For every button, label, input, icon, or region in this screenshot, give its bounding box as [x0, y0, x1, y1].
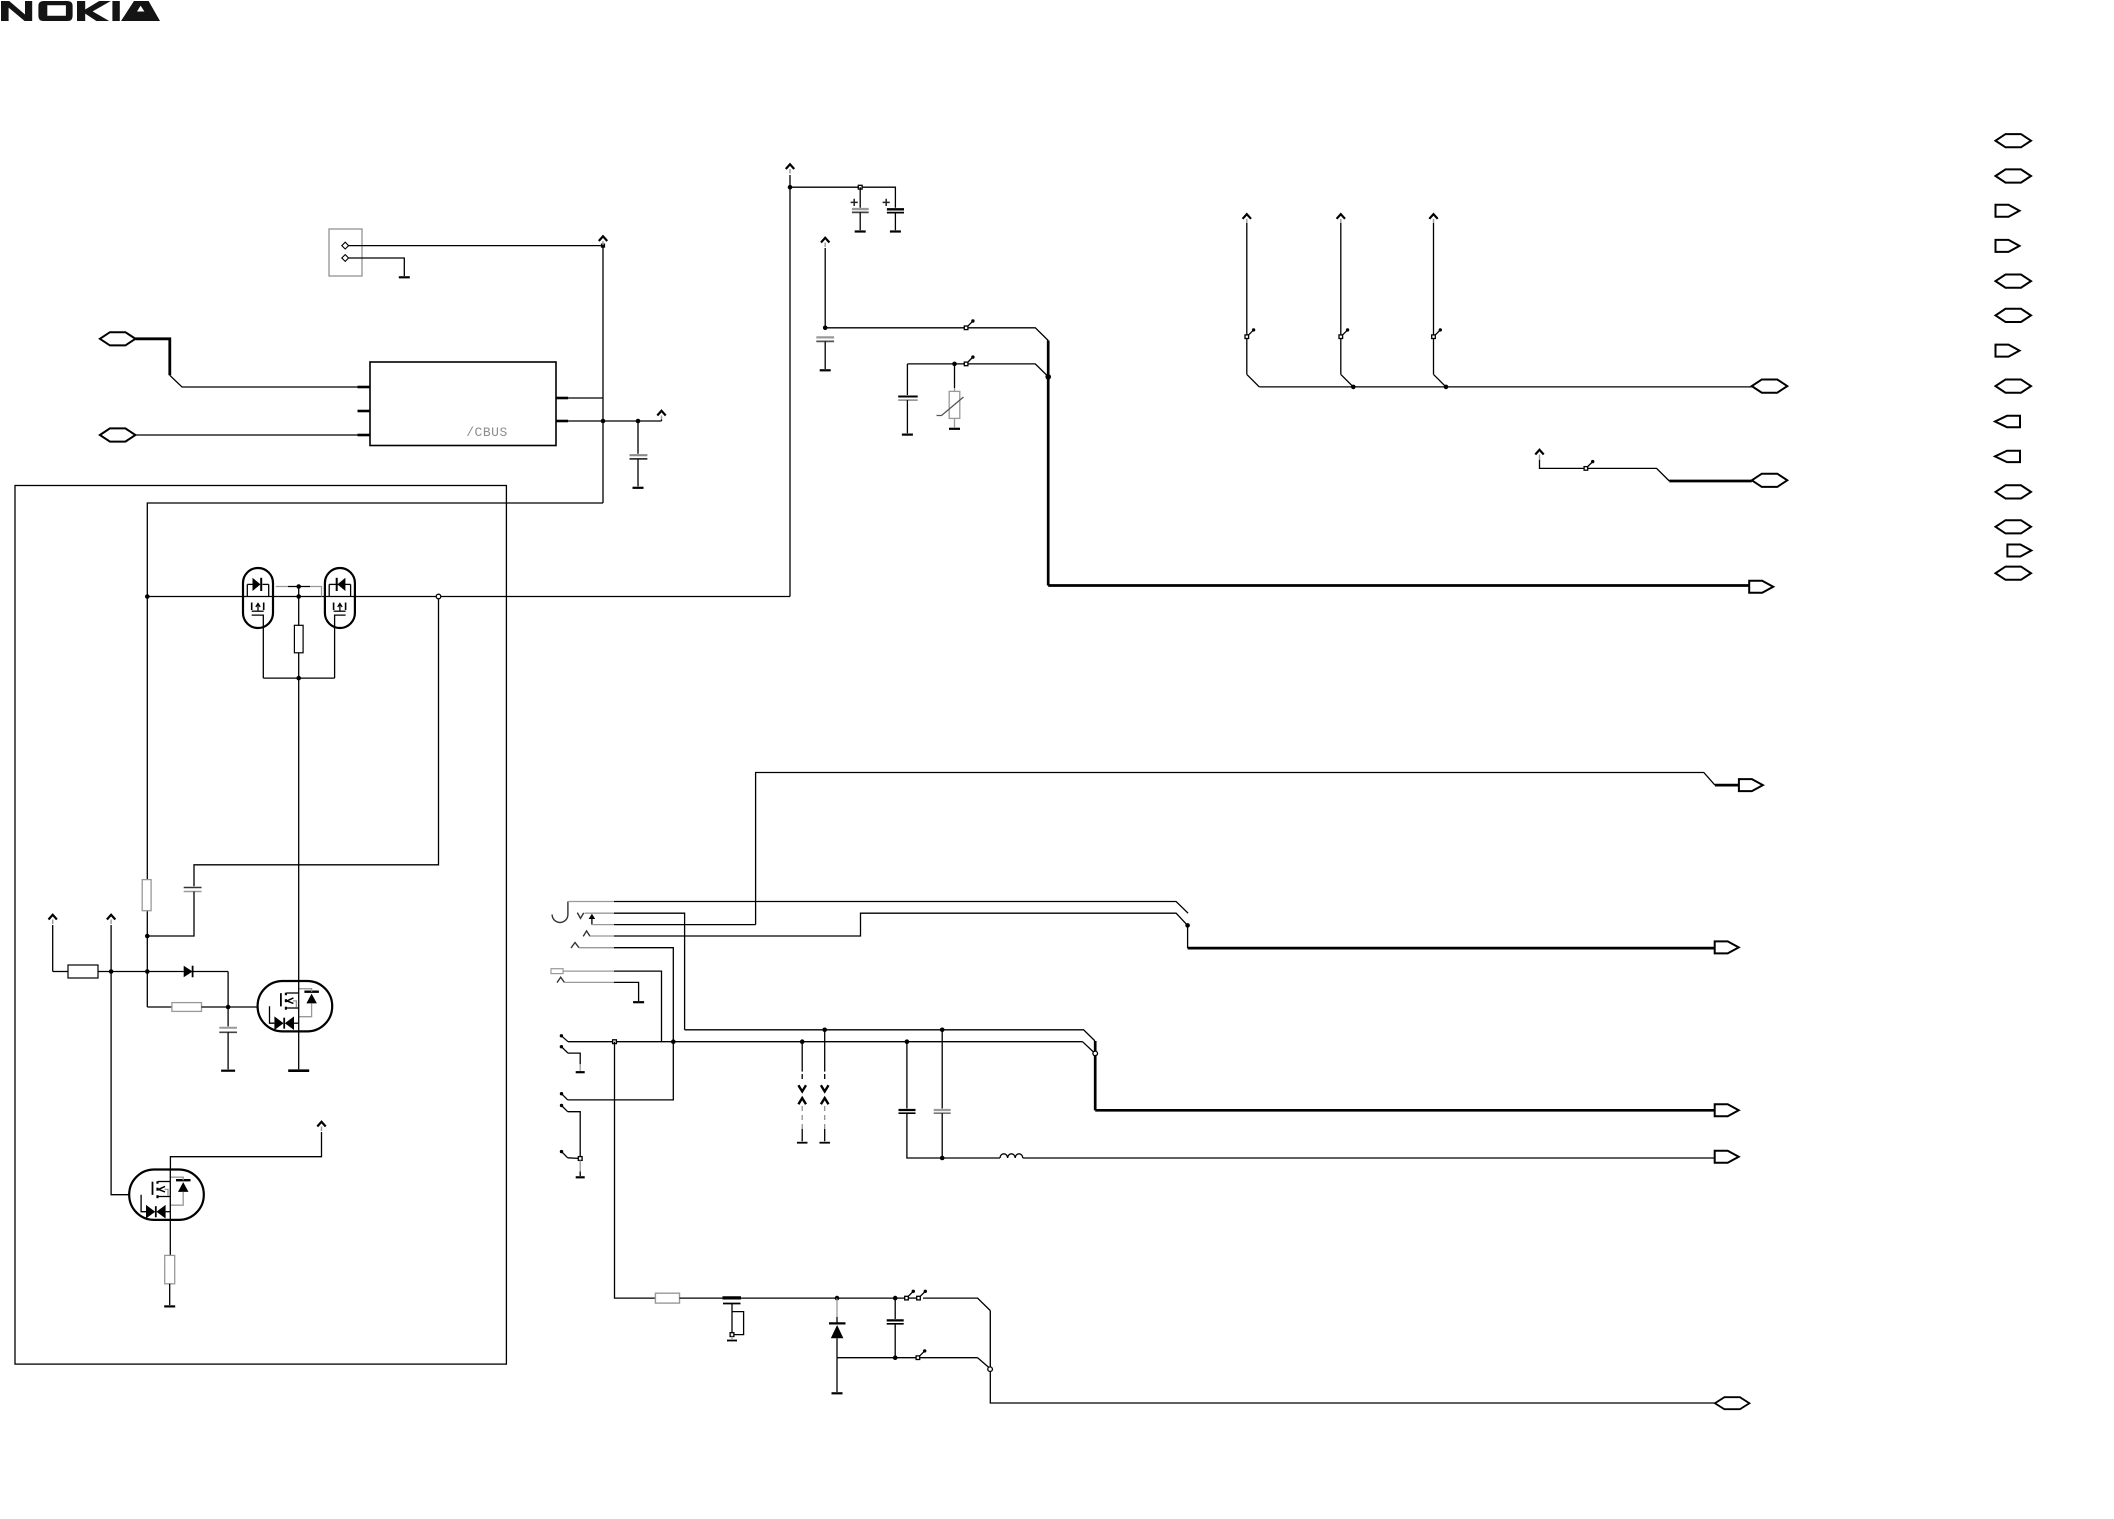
- transistor V4: [129, 1170, 204, 1220]
- node: [296, 584, 301, 589]
- wire inner feed from VBAT rail: [147, 503, 603, 1007]
- switch S3: [1245, 328, 1255, 338]
- wire to X9: [990, 1371, 1715, 1403]
- gray gate bus: [276, 587, 322, 597]
- heavy stub: [1669, 480, 1752, 483]
- connector X5 pentagon: [1739, 779, 1763, 791]
- switch S6: [1584, 460, 1594, 470]
- wire branch: [194, 599, 439, 886]
- capacitor C106: [816, 336, 834, 338]
- node: [145, 594, 150, 599]
- capacitor C308: [906, 1043, 908, 1109]
- resistor R307 loop: [732, 1312, 744, 1335]
- pin stub right 5: [556, 420, 568, 423]
- wire switch row 2: [907, 364, 1048, 377]
- jack row4 gray: [590, 935, 614, 937]
- wire V4 drain feed: [170, 1132, 321, 1170]
- connector pin 13 (pent): [2007, 545, 2031, 557]
- node: [893, 1355, 898, 1360]
- wire drain down to V3: [298, 678, 300, 981]
- fuse F1: [655, 1293, 679, 1303]
- node (open circle): [1093, 1051, 1098, 1056]
- ground stem: [836, 1358, 838, 1392]
- switch S5: [1432, 328, 1442, 338]
- node (open square): [858, 185, 862, 189]
- jack row3 gray: [592, 924, 614, 926]
- capacitor C101: [637, 421, 639, 454]
- switch S8: [917, 1290, 927, 1300]
- connector pin 11 (hex): [1996, 485, 2032, 498]
- capacitor C105 electrolytic: [887, 208, 904, 210]
- power arrow: [657, 411, 665, 420]
- drain through V3: [298, 981, 300, 1031]
- heavy net vertical: [1047, 341, 1050, 586]
- connector X6 pentagon: [1715, 941, 1739, 953]
- power arrow: [786, 164, 794, 173]
- wire: [837, 1297, 905, 1299]
- connector X7 pentagon: [1715, 1104, 1739, 1116]
- wire MBUS to N101: [135, 339, 169, 376]
- wire source link: [263, 677, 334, 679]
- node: [296, 676, 301, 681]
- switch jack B: [560, 1045, 563, 1048]
- connector pin 3 (pent): [1996, 205, 2020, 217]
- connector hexagon FBUS: [100, 428, 135, 441]
- connector pin 7 (pent): [1996, 345, 2020, 357]
- node: [1444, 385, 1449, 390]
- resistor R301: [298, 597, 300, 626]
- node: [109, 969, 114, 974]
- jack contact check: [577, 913, 583, 919]
- connector pin 6 (hex): [1996, 309, 2032, 322]
- node: [1185, 923, 1190, 928]
- pin stub right 4: [556, 397, 568, 400]
- transistor V3: [258, 981, 333, 1031]
- wire top rail: [790, 187, 895, 208]
- power arrow VBAT: [599, 236, 607, 245]
- power arrow rail 3: [1429, 214, 1437, 223]
- connector X3 hexagon: [1752, 380, 1788, 393]
- connector pin 5 (hex): [1996, 275, 2032, 288]
- connector pin 2 (hex): [1996, 169, 2032, 182]
- node (open square): [578, 1157, 582, 1161]
- inductor L1: [1000, 1154, 1023, 1158]
- node (open square): [613, 1040, 617, 1044]
- wire VBAT rail vertical: [602, 246, 604, 503]
- node: [145, 969, 150, 974]
- node: [145, 934, 150, 939]
- wire charger feed: [615, 1042, 656, 1298]
- ground: [949, 428, 960, 430]
- power arrow rail 2: [1337, 214, 1345, 223]
- switch S2: [964, 355, 974, 365]
- power arrow: [1535, 450, 1543, 459]
- wire gate row: [147, 596, 790, 598]
- switch S4: [1339, 328, 1349, 338]
- wire row4: [614, 913, 1188, 936]
- capacitor C311: [894, 1298, 896, 1319]
- wire upper branch: [923, 1298, 990, 1311]
- wire row5: [614, 948, 673, 1042]
- wire pin5 Vout: [568, 420, 661, 422]
- node (open circle): [988, 1367, 993, 1372]
- resistor R304 (gray): [169, 1220, 171, 1255]
- node: [1351, 385, 1356, 390]
- connector X9 hexagon small: [1715, 1397, 1750, 1409]
- switch jack E: [560, 1150, 563, 1153]
- gate bus black segment: [288, 586, 310, 588]
- wire row2: [614, 913, 685, 1030]
- node: [952, 362, 957, 367]
- node: [601, 419, 606, 424]
- connector pin 14 (hex): [1996, 567, 2032, 580]
- jack row6 gray: [563, 970, 614, 972]
- switch jack C: [560, 1092, 563, 1095]
- connector hexagon MBUS: [100, 332, 135, 345]
- resistor R302: [53, 971, 68, 973]
- jack contact wedge: [557, 977, 564, 982]
- node: [893, 1296, 898, 1301]
- pin stub left 2: [358, 410, 371, 413]
- ground: [633, 1001, 644, 1003]
- node: [822, 1028, 827, 1033]
- connector pin 9 (ltag): [1995, 416, 2020, 427]
- pin 1 diamond: [342, 242, 349, 249]
- node: [226, 1005, 231, 1010]
- node: [905, 1039, 910, 1044]
- wire ESD lower row: [568, 1041, 1083, 1043]
- ground: [727, 1340, 737, 1342]
- connector pin 4 (pent): [1996, 240, 2020, 252]
- diode V8: [836, 1298, 838, 1317]
- wire pin2 to ground: [348, 258, 404, 276]
- jack row2 gray: [585, 912, 615, 914]
- node: [823, 326, 828, 331]
- capacitor C104 electrolytic: [859, 187, 861, 208]
- varistor R306: [954, 364, 956, 388]
- power arrow: [107, 915, 115, 924]
- switch jack A: [560, 1034, 563, 1037]
- IC N101 /CBUS interface: [370, 362, 556, 446]
- ground: [890, 230, 901, 232]
- ground: [633, 487, 644, 489]
- capacitor C303: [184, 887, 202, 889]
- ground: [855, 230, 866, 232]
- connector pin 10 (ltag): [1995, 451, 2020, 462]
- node (open square): [730, 1333, 734, 1337]
- node: [940, 1028, 945, 1033]
- jack contact wedge: [571, 943, 579, 949]
- wire rail bus: [1259, 386, 1752, 388]
- wire ESD lower bend: [1083, 1042, 1095, 1053]
- connector pin 1 (hex): [1996, 134, 2032, 147]
- node: [835, 1296, 840, 1301]
- wire row6: [614, 971, 662, 1042]
- pin 2 diamond: [342, 255, 349, 262]
- wire lower bend: [978, 1358, 990, 1368]
- ground: [164, 1305, 175, 1307]
- heavy wire to X2: [1048, 584, 1749, 587]
- switch S7: [905, 1290, 915, 1300]
- jack contact wedge: [583, 931, 590, 937]
- wire row3 to HEADINT: [614, 924, 756, 926]
- ground: [902, 434, 913, 436]
- connector X2 pentagon: [1749, 581, 1773, 593]
- jack row1 gray: [568, 901, 614, 903]
- zener V7 (ESD): [824, 1031, 826, 1072]
- switch jack D: [560, 1104, 563, 1107]
- wire net HEADINT: [756, 773, 1715, 925]
- pin stub left 3: [358, 434, 371, 437]
- connector X8 pentagon: [1715, 1151, 1739, 1163]
- heavy stub: [1715, 784, 1739, 787]
- heavy wire vertical: [1094, 1041, 1097, 1051]
- connector X4 hexagon: [1752, 474, 1788, 487]
- capacitor C107: [906, 364, 908, 395]
- ground: [576, 1071, 585, 1073]
- heavy wire to X7: [1095, 1109, 1715, 1112]
- wire vertical black: [989, 1311, 991, 1367]
- pin stub left 1: [358, 386, 371, 389]
- node: [800, 1039, 805, 1044]
- ground: [832, 1392, 843, 1394]
- power arrow rail 1: [1243, 214, 1251, 223]
- capacitor C309 (gray): [941, 1031, 943, 1109]
- node: [1045, 374, 1051, 380]
- wire FBUS to N101: [135, 434, 357, 436]
- power arrow: [317, 1122, 325, 1131]
- node: [296, 594, 301, 599]
- wire rail bend 1: [1247, 374, 1260, 387]
- wire rail bend 2: [1341, 374, 1354, 387]
- transistor V1 (dual mosfet left): [243, 568, 273, 628]
- ground: [576, 1176, 585, 1178]
- resistor R303 (gray): [147, 1006, 172, 1008]
- wire rail bend 3: [1434, 374, 1447, 387]
- connector pin 8 (hex): [1996, 380, 2032, 393]
- resistor R305 (gray) on feed: [142, 880, 151, 911]
- plus sign: [883, 199, 890, 206]
- node VBAT junction: [601, 244, 605, 248]
- jack mic contact rect: [551, 969, 563, 974]
- jack row7 gray: [564, 981, 614, 983]
- wire: [680, 1297, 723, 1299]
- wire drain riser to top rail: [789, 187, 791, 596]
- wire gate feed V4: [111, 972, 129, 1195]
- wire pin4 to VBAT rail: [568, 397, 603, 399]
- ground: [820, 369, 831, 371]
- jack row5 gray: [579, 947, 614, 949]
- svg-text:/CBUS: /CBUS: [466, 425, 508, 440]
- NOKIA logo: [1, 1, 160, 21]
- ground: [399, 276, 410, 278]
- capacitor C302: [227, 1007, 229, 1026]
- wire: [1540, 460, 1670, 482]
- wire: [741, 1297, 837, 1299]
- capacitor C310: [723, 1303, 741, 1305]
- drain of V3 to ground: [298, 1031, 300, 1069]
- plus sign: [851, 199, 858, 206]
- wire: [908, 1297, 916, 1299]
- connector J101 (top-left box): [329, 229, 362, 276]
- node: [671, 1039, 676, 1044]
- node (open): [436, 594, 441, 599]
- wire lower branch: [837, 1357, 978, 1359]
- diode V5: [147, 971, 183, 973]
- node: [636, 419, 641, 424]
- node: [940, 1156, 945, 1161]
- wire to X6: [1187, 925, 1189, 948]
- block frame (UI module box): [15, 486, 506, 1365]
- capacitor C310 top plate on wire: [723, 1296, 742, 1299]
- wire to X8: [1023, 1157, 1715, 1159]
- wire row1: [614, 902, 1188, 914]
- ground: [221, 1070, 235, 1072]
- power arrow: [821, 238, 829, 247]
- node: [788, 185, 793, 190]
- transistor V2 (dual mosfet right): [325, 568, 355, 628]
- jack contact tip with hook: [552, 902, 568, 923]
- power arrow: [49, 915, 57, 924]
- zener V6 (ESD): [801, 1043, 803, 1072]
- wire pin1 to VBAT node: [348, 245, 603, 247]
- wire ESD upper row: [685, 1030, 1095, 1041]
- switch S9: [916, 1349, 926, 1359]
- ground: [288, 1069, 309, 1072]
- switch S1: [964, 319, 974, 329]
- jack switch arrow: [591, 917, 593, 925]
- wire row7 to ground: [614, 982, 639, 1001]
- connector pin 12 (hex): [1996, 520, 2032, 533]
- drain through V4: [169, 1170, 171, 1221]
- wire switch row 1: [825, 328, 1048, 341]
